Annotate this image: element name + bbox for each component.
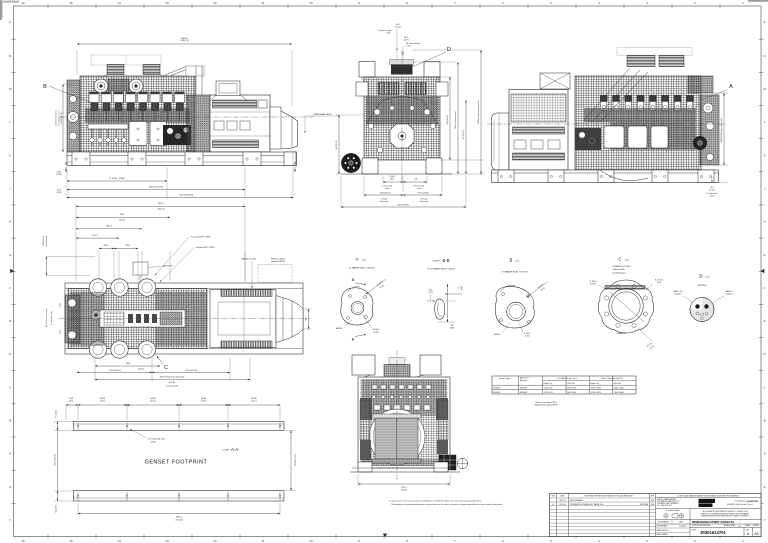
svg-text:2447 / 96.34: 2447 / 96.34	[567, 392, 576, 394]
svg-text:Go with filter center: Go with filter center	[50, 310, 53, 325]
svg-text:[2.50]: [2.50]	[396, 26, 401, 28]
svg-text:D: D	[699, 274, 702, 279]
svg-text:[8.16]: [8.16]	[57, 192, 62, 194]
svg-text:13: 13	[165, 539, 169, 543]
svg-text:1470.2: 1470.2	[251, 401, 257, 403]
svg-text:F: F	[764, 286, 766, 290]
svg-text:E: E	[764, 319, 766, 323]
svg-text:08.03.17: 08.03.17	[559, 500, 565, 502]
svg-text:14: 14	[117, 539, 121, 543]
svg-text:P: P	[9, 21, 11, 25]
svg-text:(Control panel): (Control panel)	[166, 385, 178, 388]
svg-text:[3.98]: [3.98]	[450, 328, 455, 330]
svg-text:Z: Z	[764, 485, 766, 489]
svg-text:KH40760T: KH40760T	[520, 387, 528, 389]
svg-text:[19.05]: [19.05]	[389, 176, 395, 178]
svg-text:[45.08]: [45.08]	[251, 398, 257, 400]
svg-text:1 470.2: 1 470.2	[201, 401, 207, 403]
svg-text:Y: Y	[9, 518, 11, 522]
svg-text:[230.79]: [230.79]	[181, 40, 189, 42]
svg-text:COUPE: COUPE	[222, 450, 230, 452]
svg-text:2395 / 94.29: 2395 / 94.29	[567, 387, 576, 389]
svg-text:DIMENSION PRINT KD62V16: DIMENSION PRINT KD62V16	[692, 520, 734, 524]
svg-text:HT WATER INLET / OUTLET: HT WATER INLET / OUTLET	[502, 271, 529, 274]
svg-text:27.2 [1.07]: 27.2 [1.07]	[56, 410, 58, 418]
svg-text:(sealing flange): (sealing flange)	[613, 273, 626, 275]
svg-text:13: 13	[165, 1, 169, 5]
svg-text:VENTING: VENTING	[698, 285, 707, 287]
svg-text:CODE: KD62V16-DP50HZOF: CODE: KD62V16-DP50HZOF	[692, 525, 711, 527]
svg-text:center: center	[386, 31, 391, 34]
svg-text:Adblue S: Adblue S	[725, 290, 733, 293]
svg-text:1850: 1850	[126, 363, 130, 365]
svg-text:10: 10	[309, 1, 313, 5]
svg-text:12: 12	[213, 539, 217, 543]
svg-text:A: A	[9, 452, 11, 456]
svg-text:907 [35.71]: 907 [35.71]	[463, 130, 465, 139]
svg-text:14: 14	[117, 1, 121, 5]
svg-text:center: center	[710, 194, 715, 197]
svg-text:A: A	[764, 452, 766, 456]
svg-text:10: 10	[309, 539, 313, 543]
svg-text:NJB: NJB	[651, 504, 654, 506]
svg-text:937.5: 937.5	[92, 235, 98, 237]
svg-text:[2622] exhaust axis center lin: [2622] exhaust axis center line	[477, 100, 480, 124]
svg-text:A0: A0	[754, 532, 758, 536]
svg-text:fin seal filter center: fin seal filter center	[58, 110, 61, 125]
svg-text:270.2 [10.64]: 270.2 [10.64]	[43, 236, 45, 246]
svg-text:[87.06]: [87.06]	[401, 490, 407, 492]
svg-text:1732.2 [68.19]: 1732.2 [68.19]	[294, 454, 296, 466]
svg-text:VERIFIE/CHECKED: VERIFIE/CHECKED	[657, 530, 669, 532]
svg-text:N: N	[764, 54, 766, 58]
svg-text:LT / HT WATER INLET / OUTLET: LT / HT WATER INLET / OUTLET	[427, 268, 456, 271]
svg-text:B: B	[510, 258, 513, 263]
svg-text:(4 PB): (4 PB)	[151, 441, 156, 443]
svg-text:30301614701: 30301614701	[700, 530, 726, 535]
svg-text:Fuel tank center: Fuel tank center	[45, 235, 48, 248]
svg-text:Mesures sans option WPS: Mesures sans option WPS	[535, 401, 557, 404]
svg-text:100.2: 100.2	[69, 401, 73, 403]
svg-text:240.5: 240.5	[104, 245, 109, 247]
svg-text:[6.31]: [6.31]	[525, 336, 530, 338]
svg-text:1587.2: 1587.2	[106, 226, 113, 228]
svg-text:1470.2: 1470.2	[150, 401, 156, 403]
svg-text:1678.5 [66.12]: 1678.5 [66.12]	[109, 370, 121, 372]
svg-text:[233.13]: [233.13]	[158, 208, 165, 210]
svg-text:(75.2 structure) fuel tank: (75.2 structure) fuel tank	[45, 309, 48, 327]
svg-text:Fuel inlet RF 1" BSPP: Fuel inlet RF 1" BSPP	[196, 246, 215, 249]
svg-text:center: center	[406, 44, 411, 47]
svg-text:N° REF: N° REF	[692, 530, 697, 532]
svg-text:4862.2: 4862.2	[176, 517, 182, 519]
svg-text:c/o la Kohlerpone: c/o la Kohlerpone	[735, 501, 746, 503]
svg-text:B-B: B-B	[443, 258, 450, 263]
svg-text:[3.94]: [3.94]	[69, 398, 74, 400]
svg-text:NJB: NJB	[651, 500, 654, 502]
svg-text:[6.31]: [6.31]	[374, 332, 379, 334]
svg-text:(Weight without optional WPS): (Weight without optional WPS)	[535, 404, 558, 407]
svg-text:30303016: 30303016	[493, 392, 500, 394]
svg-text:(1:5): (1:5)	[516, 261, 520, 263]
svg-text:KH47560T: KH47560T	[520, 392, 528, 394]
svg-text:16750 / 36930: 16750 / 36930	[591, 387, 601, 389]
svg-text:CRANKSHAFT AXIS: CRANKSHAFT AXIS	[313, 113, 332, 116]
svg-text:A: A	[356, 257, 359, 262]
svg-text:(1:5): (1:5)	[625, 260, 629, 262]
svg-text:75.5 [2.97]: 75.5 [2.97]	[56, 505, 58, 513]
svg-text:[10.36]: [10.36]	[56, 174, 62, 176]
svg-text:12: 12	[213, 1, 217, 5]
svg-text:[190.48]: [190.48]	[176, 519, 183, 521]
svg-text:[1.75]: [1.75]	[428, 292, 433, 294]
svg-text:5.5: 5.5	[458, 287, 460, 289]
svg-text:B: B	[9, 419, 11, 423]
svg-text:Male bushable: Male bushable	[613, 269, 625, 271]
svg-text:1470.2: 1470.2	[100, 401, 106, 403]
svg-text:K: K	[764, 153, 766, 157]
svg-text:This drawing is for informatio: This drawing is for informational purpos…	[391, 503, 503, 506]
svg-text:A: A	[294, 161, 297, 166]
svg-text:H: H	[764, 220, 766, 224]
svg-text:B: B	[352, 337, 355, 342]
svg-text:E: E	[9, 319, 11, 323]
svg-text:367.2: 367.2	[60, 303, 62, 307]
svg-text:716.5 [28.21]: 716.5 [28.21]	[380, 193, 391, 195]
svg-text:B: B	[352, 277, 355, 282]
svg-text:1413 [55.6] waterline: 1413 [55.6] waterline	[55, 110, 58, 127]
svg-text:484: 484	[390, 179, 393, 181]
svg-text:[0.57]: [0.57]	[404, 39, 409, 41]
svg-text:N: N	[9, 54, 11, 58]
svg-text:(support): (support)	[675, 293, 682, 296]
svg-text:A: A	[65, 161, 68, 166]
svg-text:21190 / 46850: 21190 / 46850	[614, 392, 624, 394]
svg-text:2170 / 85.43: 2170 / 85.43	[544, 392, 553, 394]
svg-text:CABLES OUTLET: CABLES OUTLET	[241, 258, 257, 261]
svg-text:outlet center: outlet center	[379, 200, 389, 203]
svg-text:L1 (5203 , 11382): L1 (5203 , 11382)	[109, 178, 125, 180]
svg-text:(support): (support)	[726, 293, 733, 296]
svg-text:11: 11	[261, 1, 264, 5]
svg-text:1705.2 [67.14]: 1705.2 [67.14]	[185, 370, 197, 372]
svg-text:[0.22]: [0.22]	[461, 285, 463, 290]
svg-text:2145 / 84.45: 2145 / 84.45	[544, 387, 553, 389]
svg-text:Fuel outlet RF 1" BSPP: Fuel outlet RF 1" BSPP	[191, 236, 211, 239]
svg-text:15: 15	[69, 1, 73, 5]
svg-text:TEL +33(0)2 98 41 41 41: TEL +33(0)2 98 41 41 41	[657, 505, 672, 507]
svg-text:center: center	[417, 187, 422, 190]
svg-text:B: B	[43, 84, 47, 90]
svg-text:[45.08]: [45.08]	[201, 398, 207, 400]
svg-text:center: center	[385, 187, 390, 190]
svg-text:1693.5 exhaust center: 1693.5 exhaust center	[454, 111, 457, 129]
svg-text:5921.5: 5921.5	[158, 203, 165, 205]
svg-text:H: H	[9, 220, 11, 224]
svg-text:Adblue 1 S: Adblue 1 S	[674, 290, 684, 293]
svg-text:745.5 [29.35]: 745.5 [29.35]	[418, 193, 429, 195]
svg-text:[14.97]: [14.97]	[590, 284, 596, 286]
svg-text:COUPE: COUPE	[432, 261, 440, 263]
svg-text:15: 15	[69, 539, 73, 543]
svg-text:11: 11	[261, 539, 264, 543]
svg-text:1:10: 1:10	[738, 526, 741, 528]
svg-text:AUSF/N: AUSF/N	[494, 333, 501, 336]
svg-text:907 [35.71]: 907 [35.71]	[336, 140, 338, 149]
svg-text:KOHLER-SDMO: KOHLER-SDMO	[746, 501, 759, 503]
svg-text:1919.2 [75.56]: 1919.2 [75.56]	[55, 454, 57, 466]
svg-text:LT WATER INLET / OUTLET: LT WATER INLET / OUTLET	[349, 267, 375, 270]
svg-text:[45.08]: [45.08]	[150, 398, 156, 400]
svg-text:P: P	[764, 21, 766, 25]
svg-text:(optional HRT96): (optional HRT96)	[271, 260, 285, 263]
svg-text:[60.73]: [60.73]	[138, 368, 144, 370]
svg-text:GENSET FOOTPRINT: GENSET FOOTPRINT	[145, 460, 208, 466]
svg-text:AUSF/N: AUSF/N	[336, 327, 343, 330]
svg-text:4845.2 [190.75]: 4845.2 [190.75]	[149, 187, 163, 189]
svg-text:[0.75]: [0.75]	[657, 282, 662, 284]
svg-text:[94.02]: [94.02]	[119, 219, 125, 221]
svg-text:F: F	[9, 286, 11, 290]
svg-text:584: 584	[306, 318, 308, 321]
svg-text:HRT96 on option: HRT96 on option	[271, 258, 285, 261]
svg-text:1402 [55.20] water outlet cent: 1402 [55.20] water outlet center	[720, 118, 723, 142]
svg-text:Ce plan vous est remis à titre: Ce plan vous est remis à titre exclusif …	[389, 499, 482, 502]
svg-text:30303016: 30303016	[493, 387, 500, 389]
svg-text:A: A	[729, 84, 733, 90]
svg-text:Z: Z	[9, 485, 11, 489]
svg-text:16: 16	[21, 539, 25, 543]
svg-text:B: B	[764, 419, 766, 423]
svg-text:C: C	[164, 365, 168, 371]
svg-text:16: 16	[21, 1, 25, 5]
svg-text:A-A: A-A	[231, 447, 238, 452]
svg-text:[45.08]: [45.08]	[100, 398, 106, 400]
svg-text:425.5: 425.5	[126, 245, 131, 247]
svg-text:EXHAUST OUTLET /: EXHAUST OUTLET /	[613, 265, 632, 268]
svg-text:526: 526	[414, 179, 417, 181]
svg-text:AIR FILTER: AIR FILTER	[163, 265, 173, 268]
svg-text:5921.5 [233.13]: 5921.5 [233.13]	[179, 195, 193, 197]
svg-text:K: K	[9, 153, 11, 157]
svg-text:16 X Ø 26.2 [Ø 1.03]: 16 X Ø 26.2 [Ø 1.03]	[148, 439, 165, 441]
svg-text:1540.5 [75.61]: 1540.5 [75.61]	[397, 205, 409, 207]
svg-text:(1:5): (1:5)	[362, 260, 366, 262]
svg-text:367.2: 367.2	[60, 330, 62, 334]
svg-text:1128 [44.41]: 1128 [44.41]	[447, 115, 449, 125]
svg-text:FLANGE 8": FLANGE 8"	[617, 332, 626, 335]
svg-text:30.sep.2017: 30.sep.2017	[679, 526, 686, 528]
svg-text:20050 / 44200: 20050 / 44200	[614, 387, 624, 389]
svg-text:[2.93]: [2.93]	[710, 189, 715, 191]
svg-text:20100 / 44710: 20100 / 44710	[591, 392, 601, 394]
svg-text:3590.5 Pupitre de commande: 3590.5 Pupitre de commande	[160, 376, 185, 379]
svg-text:[141.36]: [141.36]	[169, 382, 176, 384]
svg-text:07.03.18: 07.03.18	[559, 504, 565, 506]
svg-text:(1:5): (1:5)	[706, 277, 710, 279]
svg-text:Y: Y	[764, 518, 766, 522]
svg-text:outlet center: outlet center	[419, 200, 429, 203]
svg-text:C: C	[618, 257, 621, 262]
svg-text:2162 [85.12]: 2162 [85.12]	[61, 112, 63, 124]
